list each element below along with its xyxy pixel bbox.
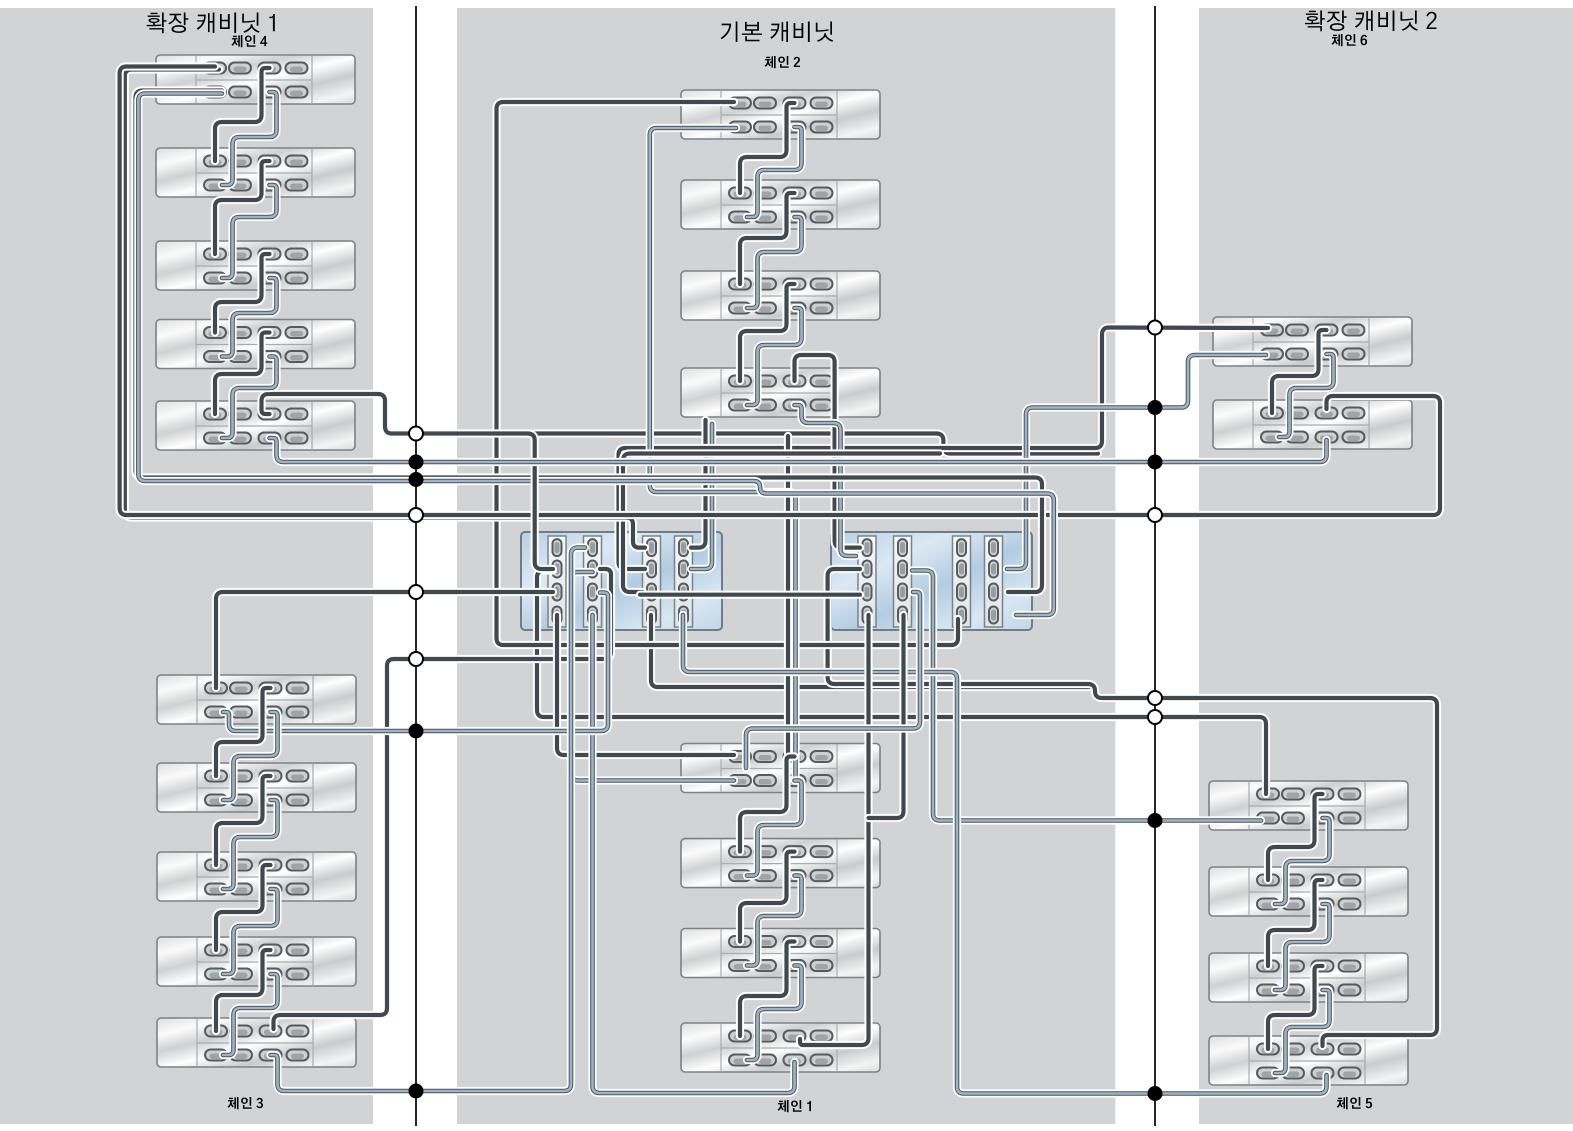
- wire U2 s1p2 to E4 r1p3: [828, 569, 1437, 1046]
- disk shelf D2 (chain 1): [681, 839, 880, 888]
- wire U2 s2p3 run: [746, 592, 920, 768]
- wire chain3 link 3 light: [223, 889, 278, 974]
- controller U1 (left head): [521, 532, 722, 630]
- node J1-659 (open): [409, 652, 423, 666]
- label chain 2: [765, 56, 800, 68]
- wire chain5 link 3 dark: [1268, 966, 1323, 1049]
- disk shelf S1 (chain 4): [156, 55, 355, 104]
- disk shelf SB3 (chain 3): [157, 852, 356, 901]
- disk shelf SB5 (chain 3): [157, 1018, 356, 1067]
- disk shelf SB2 (chain 3): [157, 763, 356, 812]
- wire C4 r1p3 to U2 s1p1: [795, 355, 861, 548]
- node J2-327.5 (open): [1148, 321, 1162, 335]
- right cabinet panel: [1199, 8, 1573, 1124]
- center cabinet panel: [457, 8, 1115, 1124]
- controller U2 (right head): [831, 532, 1032, 630]
- label chain 4: [231, 35, 267, 47]
- wire C4 r2p3 to U2 s1p2: [795, 405, 857, 556]
- wire chain5 link 1 dark: [1268, 794, 1323, 880]
- disk shelf E1 (chain 5): [1209, 781, 1408, 830]
- wire chain1 link 3 dark: [740, 942, 795, 1037]
- wire chain2 link 1 dark: [740, 103, 795, 193]
- node J2-407.5 (filled): [1148, 400, 1163, 415]
- wire U2 s4p2 to R1 r2p1: [1007, 355, 1266, 569]
- disk shelf C2 (chain 2): [681, 180, 880, 229]
- wire SB1 r2p1 to U1 s2p3: [223, 593, 608, 731]
- left cabinet panel: [0, 8, 373, 1124]
- wire chain3 link 2 light: [223, 800, 278, 889]
- wire U2 s2p4 drop: [869, 615, 904, 818]
- wire U1 s3p2 to R1 r1p1: [619, 328, 1269, 569]
- wire U1 s2p4 to D4 r2p3: [593, 615, 795, 1093]
- wire chain4 link 2 light: [222, 185, 277, 278]
- node J1-1091 (filled): [409, 1084, 424, 1099]
- wire S1 r2p1 to U2 s4p4: [138, 94, 1053, 616]
- wire chain6 link 1 light: [1279, 354, 1334, 437]
- node J2-717 (open): [1148, 710, 1162, 724]
- wire chain1 link 3 light: [747, 966, 802, 1061]
- disk shelf R1 (chain 6): [1213, 317, 1412, 366]
- wire chain1 link 1 dark: [740, 757, 795, 852]
- wire U1 s4p2 drop: [691, 424, 712, 569]
- wire chain4 link 2 dark: [215, 161, 270, 254]
- wire chain2 link 1 light: [747, 127, 802, 217]
- label chain 3: [228, 1097, 264, 1109]
- disk shelf D4 (chain 1): [681, 1023, 880, 1072]
- node J2-462 (filled): [1148, 455, 1163, 470]
- node J1-462 (filled): [409, 455, 424, 470]
- wire S1 r1p1 to R2 r1p3: [120, 67, 1440, 516]
- wire U1 s2p2 to D1 r2p1: [571, 572, 734, 781]
- wire D1 r1p3 riser: [784, 436, 792, 753]
- wire U2 s1p4 to D4 r1p3: [800, 615, 869, 1045]
- wire chain3 link 3 dark: [216, 865, 271, 950]
- wire C1 r2p1 to D1 r2p3: [650, 128, 796, 778]
- disk shelf S3 (chain 4): [156, 241, 355, 290]
- disk shelf S4 (chain 4): [156, 320, 355, 369]
- wire chain4 link 1 dark: [215, 68, 270, 161]
- wire U1 s4p1 drop: [691, 420, 706, 548]
- wire U1 s1p2 to E1 r1p1: [537, 571, 1266, 795]
- wire chain4 link 3 light: [222, 278, 277, 357]
- wire chain3 link 4 dark: [216, 950, 271, 1031]
- wire S1 r1p1 cable b to U1 s3p1: [125, 70, 645, 548]
- wire chain3 link 4 light: [223, 974, 278, 1055]
- label chain 6: [1332, 34, 1368, 46]
- wire U2 s2p2 to E1 r2p1: [912, 571, 1261, 821]
- disk shelf C1 (chain 2): [681, 90, 880, 139]
- node J2-698 (open): [1148, 691, 1162, 705]
- label expansion cabinet 2: [1305, 11, 1437, 32]
- node J2-515 (open): [1148, 508, 1162, 522]
- wire chain3 link 2 dark: [216, 776, 271, 865]
- wire chain5 link 2 light: [1275, 904, 1330, 990]
- node J2-820.5 (filled): [1148, 813, 1163, 828]
- wire chain2 link 2 light: [747, 217, 802, 308]
- wire chain5 link 3 light: [1275, 990, 1330, 1073]
- disk shelf C3 (chain 2): [681, 271, 880, 320]
- wire U1 s4p4 to E4 r2p3: [683, 615, 1327, 1094]
- node J2-1093.5 (filled): [1148, 1086, 1163, 1101]
- divider line 1: [415, 6, 417, 1126]
- wire S5 r2p3 to R2 r2p3: [270, 438, 1327, 462]
- wire C1 r1p1 to U2 s3p4: [497, 102, 959, 645]
- disk shelf C4 (chain 2): [681, 368, 880, 417]
- wire S5 r1p3 to U1 s1p2: [262, 394, 554, 569]
- label chain 5: [1337, 1097, 1373, 1109]
- wire U1 s1p4 to D1 r1p1: [557, 615, 734, 755]
- disk shelf E4 (chain 5): [1209, 1036, 1408, 1085]
- wire chain6 link 1 dark: [1272, 330, 1327, 413]
- node J1-515 (open): [409, 508, 423, 522]
- wire chain2 link 3 dark: [740, 284, 795, 381]
- wire chain2 link 3 light: [747, 308, 802, 405]
- wire chain3 link 1 dark: [216, 688, 271, 776]
- wire chain4 link 4 light: [222, 357, 277, 439]
- node J1-479.5 (filled): [409, 472, 424, 487]
- label chain 1: [778, 1100, 812, 1112]
- wire chain1 link 2 light: [747, 876, 802, 966]
- wire chain3 link 1 light: [223, 712, 278, 800]
- disk shelf R2 (chain 6): [1213, 400, 1412, 449]
- disk shelf SB1 (chain 3): [157, 675, 356, 724]
- wire U1 s3p4 run: [651, 615, 1090, 687]
- disk shelf E2 (chain 5): [1209, 867, 1408, 916]
- wire chain2 link 2 dark: [740, 193, 795, 284]
- node J1-433.5 (open): [409, 427, 423, 441]
- node J1-592 (open): [409, 585, 423, 599]
- disk shelf D3 (chain 1): [681, 929, 880, 978]
- wire chain1 link 1 light: [747, 781, 802, 876]
- wire SB5 r2p3 to U1 s2p1: [271, 548, 586, 1091]
- divider line 2: [1154, 6, 1156, 1126]
- disk shelf S2 (chain 4): [156, 148, 355, 197]
- wire chain1 link 2 dark: [740, 852, 795, 942]
- label base cabinet: [721, 22, 834, 43]
- node J1-731 (filled): [409, 724, 424, 739]
- wire U2 s1p3 stub: [640, 591, 860, 599]
- wire SB1 r1p1 to U1 s1p3: [216, 592, 553, 688]
- label expansion cabinet 1: [147, 13, 275, 34]
- wire chain4 link 1 light: [222, 92, 277, 185]
- wire U1 s2p2 to SB5 r1p3: [274, 569, 612, 1029]
- wire mid dark run: [535, 434, 1098, 454]
- wire chain4 link 4 dark: [215, 333, 270, 415]
- wire S1 r2p1 cable to U2 s4p3: [136, 91, 1043, 593]
- wire chain5 link 2 dark: [1268, 880, 1323, 966]
- disk shelf D1 (chain 1): [681, 744, 880, 793]
- wire chain5 link 1 light: [1275, 818, 1330, 904]
- wire U1 s3p3 riser: [623, 454, 940, 593]
- disk shelf E3 (chain 5): [1209, 953, 1408, 1002]
- disk shelf SB4 (chain 3): [157, 937, 356, 986]
- wire chain4 link 3 dark: [215, 254, 270, 333]
- disk shelf S5 (chain 4): [156, 401, 355, 450]
